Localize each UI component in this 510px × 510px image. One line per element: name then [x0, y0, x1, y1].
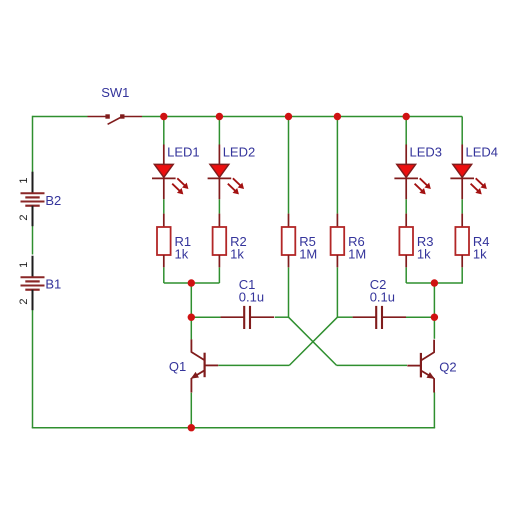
svg-text:1: 1 [18, 262, 30, 268]
svg-text:2: 2 [18, 215, 30, 221]
svg-text:1k: 1k [175, 247, 189, 262]
svg-text:LED4: LED4 [466, 145, 499, 160]
svg-text:LED3: LED3 [410, 145, 443, 160]
svg-text:Q1: Q1 [169, 359, 186, 374]
svg-text:LED2: LED2 [223, 145, 256, 160]
svg-text:Q2: Q2 [439, 360, 456, 375]
svg-text:1: 1 [18, 178, 30, 184]
svg-text:B2: B2 [45, 193, 61, 208]
svg-text:0.1u: 0.1u [239, 290, 264, 305]
svg-text:0.1u: 0.1u [370, 290, 395, 305]
svg-text:1k: 1k [417, 247, 431, 262]
svg-text:B1: B1 [45, 276, 61, 291]
svg-text:1M: 1M [348, 247, 366, 262]
svg-text:1k: 1k [230, 247, 244, 262]
svg-text:LED1: LED1 [167, 145, 200, 160]
svg-text:1k: 1k [473, 247, 487, 262]
svg-text:2: 2 [18, 299, 30, 305]
svg-text:1M: 1M [299, 247, 317, 262]
svg-text:SW1: SW1 [101, 85, 129, 100]
